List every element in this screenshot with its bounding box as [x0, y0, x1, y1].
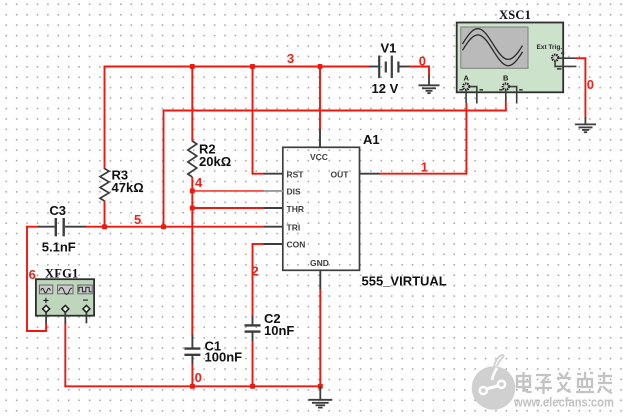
svg-text:555_VIRTUAL: 555_VIRTUAL [362, 274, 447, 289]
capacitor C2 leads [252, 316, 254, 326]
node junction RST/top [250, 64, 255, 69]
svg-text:XSC1: XSC1 [499, 8, 531, 22]
wire B branch down to node 5 [163, 111, 165, 228]
scope terminal B [503, 84, 509, 90]
wire XFG1 common down [64, 323, 66, 387]
pin stub OUT [360, 173, 380, 175]
svg-text:0: 0 [195, 370, 202, 385]
wire DIS horizontal (node 4) [192, 190, 263, 192]
svg-text:10nF: 10nF [264, 323, 294, 338]
wire ext trig down to ground [584, 58, 586, 118]
svg-text:A: A [464, 74, 470, 83]
XFG1 button triangle [58, 285, 73, 294]
resistor R3 47kOhm zigzag [100, 169, 109, 202]
node junction C2/bus [250, 384, 255, 389]
wire R2 bottom down to C1 [191, 177, 193, 336]
svg-text:5: 5 [134, 212, 141, 227]
wire scope B horizontal [163, 110, 507, 112]
wire C2 bottom [252, 341, 254, 387]
watermark logo disc [472, 355, 516, 410]
scope trace channel A [463, 29, 523, 60]
svg-text:TRI: TRI [287, 222, 301, 232]
svg-text:−: − [83, 296, 89, 307]
svg-text:12 V: 12 V [372, 81, 399, 96]
wire R3 top vertical [104, 66, 106, 169]
battery V1 leads [369, 66, 380, 68]
scope terminal A [463, 84, 469, 90]
pin stub DIS (gray) [264, 190, 283, 192]
svg-text:RST: RST [287, 169, 305, 179]
wire R3 bottom to node 5 [104, 201, 106, 228]
pin stub CON [264, 243, 283, 245]
svg-text:4: 4 [195, 175, 203, 190]
pin stub TRI [264, 226, 283, 228]
node junction C1/bus [190, 384, 195, 389]
wire RST vertical from node 3 [252, 67, 254, 175]
svg-text:47kΩ: 47kΩ [112, 180, 144, 195]
capacitor C2 plates [245, 324, 261, 326]
wire XFG1 plus horizontal [26, 330, 46, 332]
oscilloscope XSC1 body [457, 23, 577, 104]
node junction GND/bus [318, 384, 323, 389]
svg-text:5.1nF: 5.1nF [42, 239, 76, 254]
wire C3 left down to XFG1 [26, 226, 28, 332]
svg-text:20kΩ: 20kΩ [199, 154, 231, 169]
wire XFG1 plus vertical [45, 323, 47, 332]
node junction THR [190, 206, 195, 211]
pin stub THR [264, 207, 283, 209]
svg-text:Ext Trig.: Ext Trig. [537, 44, 563, 51]
wire ext trig horizontal [575, 57, 587, 59]
ground (battery V1) [419, 76, 440, 94]
wire CON vertical to C2 (node 2) [252, 243, 254, 316]
function generator XFG1 body [36, 279, 94, 323]
XFG1 terminal stubs [46, 312, 86, 323]
wire scope B vertical [505, 101, 507, 112]
pin stub RST [264, 173, 283, 175]
ground (555 GND / bottom bus) [308, 386, 332, 407]
ground (ext trig) [575, 118, 596, 133]
wire battery plus to ground [409, 66, 430, 68]
svg-text:OUT: OUT [331, 169, 350, 179]
svg-text:1: 1 [421, 160, 428, 175]
svg-text:0: 0 [419, 54, 426, 69]
scope ext trig legs [555, 53, 576, 69]
svg-text:XFG1: XFG1 [45, 267, 78, 281]
wire scope A vertical [465, 103, 467, 175]
wire node 5 horizontal to TRI [86, 226, 264, 228]
scope terminal Ext Trig [552, 55, 558, 61]
node junction B-branch/node5 [161, 224, 166, 229]
XFG1 terminal common (diamond) [62, 305, 69, 312]
capacitor C3 plates [55, 218, 57, 236]
node junction VCC/top [318, 64, 323, 69]
svg-text:A1: A1 [363, 132, 380, 147]
wire C3 stub joint [26, 226, 39, 228]
XFG1 terminal minus (diamond) [83, 305, 90, 312]
svg-text:THR: THR [287, 204, 304, 214]
wire GND pin down to bus [319, 289, 321, 388]
svg-text:VCC: VCC [310, 152, 328, 162]
node junction DIS [190, 188, 195, 193]
wire RST horizontal [252, 173, 264, 175]
XFG1 button square [78, 285, 92, 294]
pin stub VCC [319, 130, 321, 148]
scope trace channel B [463, 35, 523, 66]
svg-text:B: B [503, 74, 509, 83]
watermark CJK text 电子发烧友 (approximated glyph strokes) [517, 372, 612, 394]
XFG1 terminal plus (diamond) [43, 305, 50, 312]
resistor R2 20kOhm zigzag [188, 141, 197, 177]
wire VCC pin vertical [319, 66, 321, 130]
svg-text:C3: C3 [49, 203, 66, 218]
svg-text:6: 6 [29, 267, 36, 282]
node junction R3/node5 [102, 224, 107, 229]
scope terminal A legs [460, 87, 484, 104]
svg-text:www.elecfans.com: www.elecfans.com [513, 395, 614, 410]
svg-text:3: 3 [287, 51, 294, 66]
wire R2 top vertical [191, 66, 193, 142]
XFG1 button sine [39, 285, 52, 294]
capacitor C1 plates [184, 347, 200, 349]
wire CON horizontal [252, 243, 264, 245]
op-amp/timer U=A1 555 chip body [264, 130, 380, 290]
svg-text:2: 2 [252, 264, 259, 279]
pin stub GND [319, 270, 321, 289]
wire C1 bottom [191, 364, 193, 388]
wire VCC net top horizontal (node 3) [104, 66, 370, 68]
svg-text:100nF: 100nF [205, 349, 243, 364]
svg-text:GND: GND [310, 258, 329, 268]
svg-text:V1: V1 [381, 40, 397, 55]
wire THR horizontal [192, 207, 263, 209]
wire bottom ground bus (node 0) [64, 385, 320, 387]
capacitor C1 leads [191, 335, 193, 349]
scope terminal B legs [499, 87, 523, 104]
svg-text:0: 0 [587, 77, 594, 92]
oscilloscope screen [461, 27, 528, 68]
battery V1 plates [378, 56, 380, 79]
capacitor C3 leads [38, 226, 55, 228]
wire OUT horizontal (node 1) [380, 173, 468, 175]
node junction R2/top [190, 64, 195, 69]
svg-text:CON: CON [287, 240, 306, 250]
svg-text:DIS: DIS [287, 187, 302, 197]
